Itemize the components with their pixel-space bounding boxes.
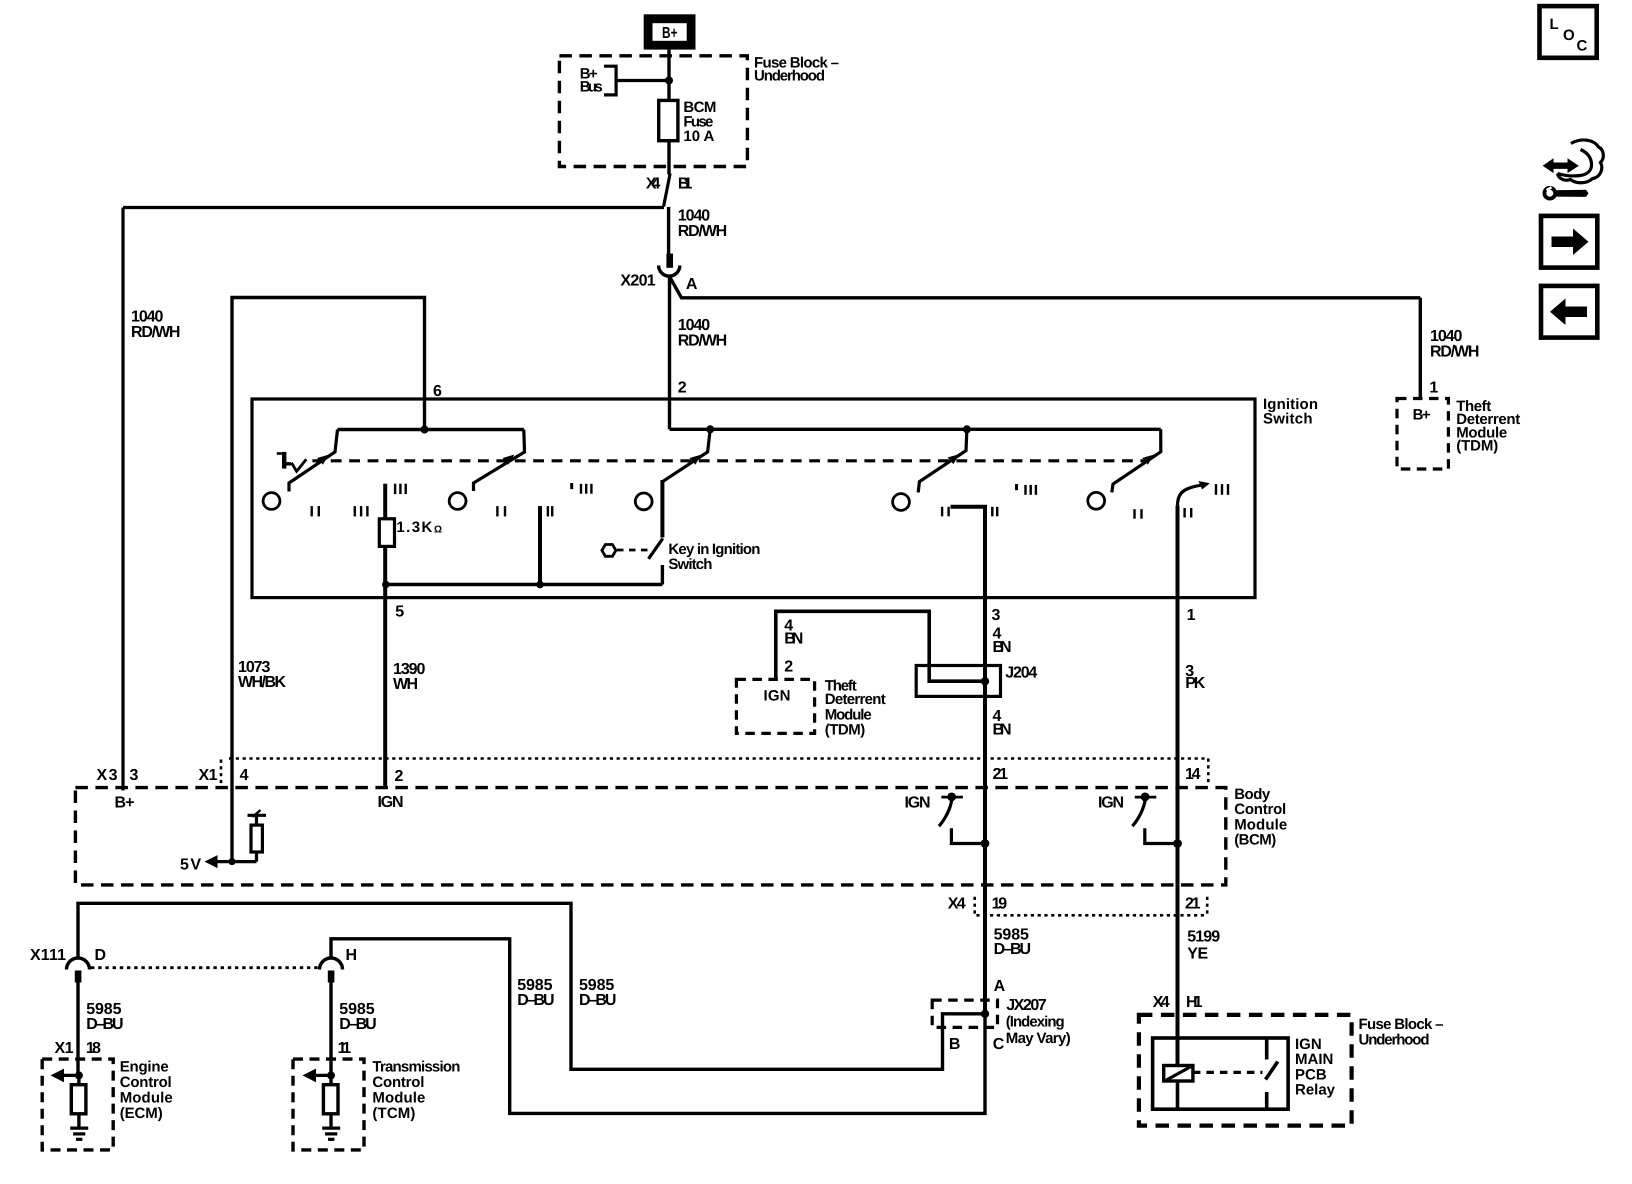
ticks II (right of sw4 corner) (991, 507, 998, 517)
switch blade 1 (289, 430, 338, 492)
svg-text:Switch: Switch (1263, 411, 1313, 428)
svg-text:IGN: IGN (1098, 795, 1124, 812)
connector X201 cup (659, 266, 680, 277)
rotary position dashed line (312, 459, 1146, 462)
blade 5 arrowhead (1142, 455, 1154, 465)
ECM resistor (77, 1075, 80, 1084)
position ticks III (sw1) (354, 506, 369, 516)
back arrow icon box (1541, 286, 1597, 338)
svg-text:RD/WH: RD/WH (1430, 344, 1479, 361)
svg-text:X4: X4 (1153, 994, 1170, 1011)
switch blade 2 (474, 430, 525, 492)
contact circle 2 (449, 493, 466, 510)
svg-text:BN: BN (784, 631, 803, 648)
bottom bus (key net) (385, 583, 662, 586)
wire 1073 inside BCM to 5V node (230, 788, 233, 862)
ECM ground (70, 1126, 88, 1129)
wire fuse to X4 connector (667, 141, 670, 175)
svg-text:Module: Module (120, 1089, 173, 1106)
contact circle 4 (893, 494, 910, 511)
svg-text:Control: Control (120, 1074, 172, 1091)
svg-text:4: 4 (240, 767, 249, 784)
svg-text:5199: 5199 (1187, 929, 1220, 946)
forward arrow icon box (1541, 216, 1597, 268)
svg-text:Bus: Bus (580, 79, 603, 96)
svg-text:14: 14 (1185, 766, 1201, 783)
wire X201 down to ignition switch pin 2 (668, 278, 671, 430)
X111 dotted alignment line (91, 966, 318, 969)
dotted divider right end (1207, 759, 1210, 783)
svg-text:D–BU: D–BU (517, 992, 554, 1009)
wire 21 down to relay (1176, 885, 1180, 1066)
svg-text:X201: X201 (620, 273, 655, 290)
svg-text:YE: YE (1187, 946, 1208, 963)
wire pin3 to BCM 21 (983, 598, 987, 788)
svg-text:D–BU: D–BU (994, 941, 1031, 958)
ticks 1 III (sw4) (1015, 484, 1037, 495)
splice JX207 dashed box (932, 1000, 997, 1027)
svg-text:(BCM): (BCM) (1234, 832, 1276, 849)
svg-text:JX207: JX207 (1006, 997, 1047, 1014)
svg-text:RD/WH: RD/WH (678, 333, 727, 350)
fixed lead (951, 828, 985, 843)
switch 6 wire to pin 1 (1176, 506, 1180, 598)
svg-text:6: 6 (433, 383, 442, 400)
connector row dotted line X1 (229, 757, 1208, 760)
svg-text:(TCM): (TCM) (372, 1105, 415, 1122)
svg-text:3: 3 (130, 767, 139, 784)
svg-text:C: C (993, 1036, 1005, 1053)
ticks II (sw4 center) (941, 507, 950, 517)
ticks II (sw2 center) (547, 506, 554, 516)
svg-text:X3: X3 (97, 767, 118, 784)
blade 2 arrowhead (503, 455, 515, 465)
TDM jumper wire (2 to J204) (776, 611, 929, 679)
svg-text:D–BU: D–BU (579, 992, 616, 1009)
svg-text:A: A (994, 978, 1006, 995)
svg-text:IGN: IGN (378, 794, 404, 811)
wire 14 inside BCM (1176, 788, 1180, 885)
svg-text:PK: PK (1185, 675, 1205, 692)
wire JX207 B branch to ECM run (78, 903, 985, 1069)
svg-text:IGN: IGN (764, 688, 791, 705)
switch 3 center wire (660, 480, 664, 538)
wire horizontal to pin 6 (232, 298, 425, 788)
resistor wire top (pin5 net) (383, 484, 387, 519)
ticks 1 III (sw3) (570, 483, 592, 494)
svg-text:B: B (949, 1036, 961, 1053)
svg-text:Engine: Engine (120, 1058, 169, 1075)
X111 pin D tick (75, 971, 82, 983)
contact circle 1 (263, 493, 280, 510)
junction dot pin 6 on bus 1 (421, 426, 429, 434)
ECM junction dot (75, 1071, 83, 1079)
svg-text:X4: X4 (646, 175, 661, 192)
wire bracket to junction (616, 79, 669, 82)
wire horizontal branch to left B+ run (123, 206, 664, 209)
accessory position glyph (277, 452, 307, 471)
blade 6 arrowhead (1199, 481, 1210, 490)
svg-text:2: 2 (395, 768, 404, 785)
svg-text:5V: 5V (180, 856, 201, 873)
position ticks II (sw1) (311, 506, 321, 516)
ignition switch box (252, 399, 1255, 598)
svg-text:X4: X4 (948, 895, 966, 912)
svg-text:1.3K: 1.3K (396, 519, 432, 536)
X111 arc H (320, 958, 343, 969)
svg-text:H1: H1 (1186, 994, 1203, 1011)
svg-text:(TDM): (TDM) (825, 722, 866, 739)
relay switch lower lead (1265, 1092, 1269, 1109)
relay coil (1164, 1066, 1193, 1082)
relay coil lower lead (1176, 1081, 1180, 1109)
TCM arrow (309, 1074, 331, 1077)
svg-text:RD/WH: RD/WH (131, 324, 180, 341)
svg-text:(ECM): (ECM) (120, 1105, 163, 1122)
IGN MAIN PCB relay box (1153, 1038, 1289, 1109)
key-in hex contact (602, 545, 616, 557)
bus 2 (switch sections 3-4-5) (670, 428, 1161, 431)
svg-text:21: 21 (1185, 895, 1201, 912)
transmission control module TCM dashed box (293, 1059, 364, 1150)
connector X201 pin tick (666, 254, 673, 268)
junction dot sw2 on bottom bus (536, 581, 544, 589)
svg-text:1: 1 (1429, 379, 1438, 396)
svg-text:19: 19 (992, 895, 1008, 912)
TCM resistor (329, 1075, 332, 1084)
bus 1 (switch sections 1-2) (338, 428, 524, 431)
resistor wire bottom (383, 546, 387, 597)
svg-text:Transmission: Transmission (372, 1058, 460, 1075)
5V pullup resistor (251, 825, 262, 852)
svg-text:D–BU: D–BU (339, 1016, 376, 1033)
svg-text:B+: B+ (1413, 407, 1431, 424)
BCM fuse symbol (659, 100, 678, 140)
svg-text:B+: B+ (115, 795, 135, 812)
5V pullup: T bar (248, 814, 267, 817)
blade 1 arrowhead (317, 455, 329, 465)
fuse block underhood dashed box (top) (559, 56, 747, 167)
ticks II (sw6 wire) (1183, 508, 1192, 518)
blade (1132, 800, 1145, 826)
switch 4 center wire to pin 3 (951, 507, 986, 598)
svg-text:3: 3 (992, 607, 1001, 624)
wire left vertical 1040 RD/WH to BCM (121, 208, 124, 791)
svg-text:C: C (1577, 38, 1588, 55)
svg-text:Relay: Relay (1295, 1082, 1336, 1099)
B+ power feed box (644, 14, 696, 49)
svg-text:BN: BN (993, 722, 1012, 739)
relay switch fixed lead top (1265, 1038, 1269, 1060)
ticks II (sw5) (1133, 509, 1142, 519)
theft deterrent module TDM dashed box (right) (1397, 399, 1448, 470)
wire H to TCM (329, 983, 332, 1076)
fuse block underhood dashed box (bottom) (1139, 1015, 1352, 1126)
svg-text:Module: Module (372, 1089, 425, 1106)
wire B+ box to fuse (667, 50, 670, 101)
switch blade 4 (918, 429, 967, 492)
svg-text:X1: X1 (55, 1040, 74, 1057)
switch 6 curved blade (1178, 485, 1206, 506)
switch blade 5 (1112, 429, 1161, 492)
wire D to ECM (76, 983, 79, 1076)
B+ Bus bracket (604, 66, 616, 95)
junction dot resistor on bottom bus (382, 581, 390, 589)
svg-text:Underhood: Underhood (1359, 1031, 1430, 1048)
svg-text:11: 11 (338, 1040, 352, 1057)
svg-text:21: 21 (993, 766, 1009, 783)
junction dot JX207 (981, 1010, 989, 1018)
svg-text:B+: B+ (662, 25, 678, 42)
ticks III beside resistor wire (394, 484, 407, 494)
svg-text:J204: J204 (1005, 664, 1037, 681)
ECM arrow (57, 1074, 79, 1077)
svg-text:Switch: Switch (668, 556, 712, 573)
svg-text:A: A (686, 276, 698, 293)
wire down to TDM B+ (1419, 298, 1422, 399)
svg-text:1: 1 (1187, 607, 1196, 624)
svg-text:WH: WH (393, 676, 418, 693)
blade 4 arrowhead (948, 454, 960, 464)
svg-text:X1: X1 (199, 767, 218, 784)
svg-text:(TDM): (TDM) (1456, 437, 1498, 454)
wire 1390 WH (pin5 to BCM 2) (383, 598, 387, 788)
contact circle 3 (635, 493, 652, 510)
svg-text:D: D (95, 947, 107, 964)
svg-text:Underhood: Underhood (754, 67, 825, 84)
switch 2 center wire (538, 506, 542, 584)
wire JX207 C branch to TCM run (331, 939, 985, 1114)
svg-text:H: H (346, 947, 358, 964)
fixed lead (1145, 828, 1178, 843)
svg-text:L: L (1550, 16, 1559, 33)
TCM junction dot (327, 1071, 335, 1079)
relay dashed actuation link (1193, 1071, 1263, 1074)
svg-text:2: 2 (784, 659, 793, 676)
dotted divider X1 (220, 760, 223, 785)
pivot dot (1141, 793, 1150, 802)
BCM IGN switch right: bar (1135, 796, 1157, 799)
pivot dot (947, 793, 956, 802)
svg-text:(Indexing: (Indexing (1006, 1014, 1065, 1031)
LOC icon box (1540, 6, 1597, 58)
wire 19 down to JX207 (983, 885, 987, 1014)
svg-text:10 A: 10 A (683, 128, 714, 145)
key-in switch blade (649, 539, 663, 559)
svg-text:X111: X111 (30, 947, 66, 964)
X111 pin H tick (328, 971, 335, 983)
junction dot (1173, 839, 1182, 848)
svg-text:IGN: IGN (905, 795, 931, 812)
diagnostic navigation icon (arrows and wrench) (1543, 140, 1604, 199)
resistor 1.3K body (379, 519, 394, 547)
TCM ground (322, 1126, 340, 1129)
svg-text:B1: B1 (678, 175, 693, 192)
relay switch blade (1266, 1062, 1278, 1080)
contact circle 5 (1088, 492, 1105, 509)
switch blade 3 (662, 429, 711, 482)
svg-text:Ω: Ω (434, 525, 442, 536)
svg-text:RD/WH: RD/WH (678, 223, 727, 240)
svg-text:BN: BN (993, 639, 1012, 656)
junction dot blade 3 (706, 425, 714, 433)
junction dot blade 4 (963, 425, 971, 433)
svg-text:2: 2 (678, 379, 687, 396)
X111 arc D (67, 958, 90, 969)
blade 3 arrowhead (690, 455, 702, 465)
svg-text:WH/BK: WH/BK (238, 674, 286, 691)
wire 21 inside BCM (983, 788, 987, 885)
junction dot at B+ bus tap (665, 77, 673, 85)
BCM IGN switch left: bar (941, 796, 963, 799)
theft deterrent module dashed box (middle) (736, 679, 814, 733)
5V arrow line (211, 860, 257, 863)
ticks III (sw6) (1215, 484, 1229, 495)
svg-text:5: 5 (395, 604, 404, 621)
svg-text:O: O (1563, 27, 1575, 44)
svg-text:18: 18 (86, 1040, 101, 1057)
body control module BCM dashed box (75, 788, 1225, 885)
junction dot (981, 839, 990, 848)
key-in fixed lead to bottom bus (661, 565, 664, 585)
wire pin1 to BCM 14 (1176, 598, 1180, 788)
svg-text:Control: Control (372, 1074, 424, 1091)
key-in dashed link (617, 549, 649, 552)
ticks II (sw2 circle) (496, 506, 506, 516)
splice J204 box (929, 666, 985, 681)
junction dot J204 (981, 677, 989, 685)
blade (939, 800, 952, 826)
engine control module ECM dashed box (42, 1059, 113, 1150)
wire branch A diagonal (670, 278, 1420, 298)
connector X4/B1 slash (664, 174, 671, 207)
svg-text:D–BU: D–BU (86, 1016, 123, 1033)
svg-text:May Vary): May Vary) (1006, 1030, 1071, 1047)
